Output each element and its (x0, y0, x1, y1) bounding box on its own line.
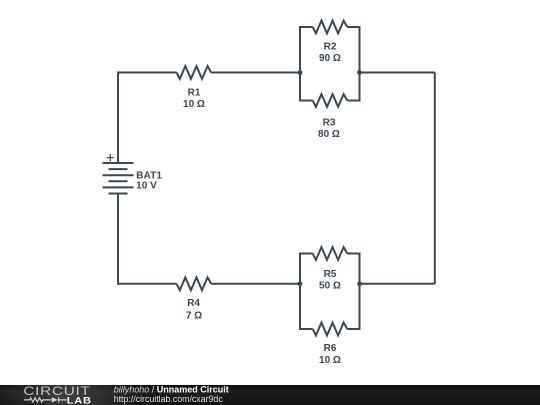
resistor R2 (zigzag body) (313, 21, 348, 34)
svg-text:10 Ω: 10 Ω (183, 99, 205, 110)
wire: bottom-right corner to node D (360, 283, 435, 285)
wire: battery + terminal up to top-left corner and right to R1 (118, 73, 177, 164)
footer bar logo glow (0, 385, 540, 405)
wire: node A down to R3 branch (300, 73, 313, 101)
wire: node A up to R2 branch (300, 27, 313, 73)
resistor R6 (zigzag body) (313, 323, 348, 336)
svg-text:10 V: 10 V (136, 181, 157, 192)
svg-text:R3: R3 (323, 117, 336, 128)
svg-text:80 Ω: 80 Ω (318, 129, 340, 140)
node C junction dot (298, 281, 303, 286)
wire: R2 to node B (347, 27, 359, 73)
svg-text:R1: R1 (188, 87, 201, 98)
wire: node C left to R4 (211, 283, 300, 285)
svg-text:7 Ω: 7 Ω (186, 311, 202, 322)
wire: R3 to node B (347, 73, 359, 101)
svg-text:http://circuitlab.com/cxar9dc: http://circuitlab.com/cxar9dc (114, 394, 224, 404)
wire: R1 right lead to node A (211, 72, 300, 74)
resistor R1 (zigzag body) (177, 66, 212, 79)
wire: node C down to R6 branch (300, 284, 313, 329)
svg-text:R5: R5 (324, 269, 337, 280)
svg-text:billyhoho / Unnamed Circuit: billyhoho / Unnamed Circuit (114, 384, 229, 394)
wire: right vertical side (434, 73, 436, 284)
wire: node B to top-right corner (360, 72, 435, 74)
CircuitLab logo diode triangle (52, 397, 58, 402)
svg-text:LAB: LAB (67, 396, 92, 405)
svg-text:R2: R2 (324, 41, 337, 52)
svg-text:10 Ω: 10 Ω (319, 355, 341, 366)
svg-text:R6: R6 (324, 343, 337, 354)
wire: R4 to bottom-left corner up to battery - terminal (118, 194, 177, 284)
wire: node D up to R5 branch right end (347, 254, 359, 284)
wire: R6 to node D (347, 284, 359, 329)
node B junction dot (357, 70, 362, 75)
battery BAT1 symbol (3 cells: long/short plates) (103, 163, 134, 194)
wire: R5 left lead to node C (300, 254, 313, 284)
battery + polarity mark (107, 154, 114, 161)
footer bar background (0, 385, 540, 405)
resistor R5 (zigzag body) (313, 247, 348, 260)
node D junction dot (357, 281, 362, 286)
svg-text:90 Ω: 90 Ω (319, 53, 341, 64)
svg-text:R4: R4 (187, 298, 200, 309)
svg-text:50 Ω: 50 Ω (319, 281, 341, 292)
node A junction dot (298, 70, 303, 75)
resistor R4 (zigzag body) (177, 277, 212, 290)
resistor R3 (zigzag body) (313, 94, 348, 107)
CircuitLab logo schematic glyph (wire, zigzag, diode) (24, 397, 67, 402)
